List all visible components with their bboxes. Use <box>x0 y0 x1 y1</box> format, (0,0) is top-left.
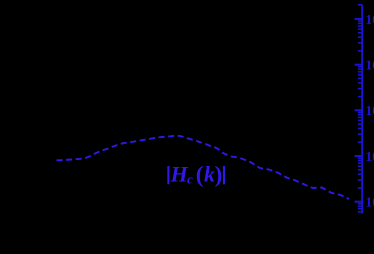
right y-axis line <box>361 5 363 214</box>
svg-text:10: 10 <box>365 58 374 73</box>
label |Hc(k)| : right bar <box>223 166 225 184</box>
svg-text:10: 10 <box>365 103 374 118</box>
major tick 10^1 <box>355 155 363 157</box>
minor ticks decade 10^2 <box>358 112 362 142</box>
minor ticks decade 10^3 <box>358 67 362 97</box>
label |Hc(k)| : left bar <box>167 166 169 184</box>
dashed frequency-response curve <box>57 136 350 199</box>
minor ticks decade 10^1 <box>358 158 362 188</box>
minor ticks decade 10^0 <box>358 204 362 212</box>
major tick 10^3 <box>355 64 363 66</box>
svg-text:k: k <box>204 161 215 186</box>
svg-text:10: 10 <box>365 149 374 164</box>
minor ticks decade 10^4 <box>358 21 362 51</box>
svg-text:10: 10 <box>365 195 374 210</box>
svg-text:c: c <box>187 171 193 186</box>
major tick 10^4 <box>355 18 363 20</box>
svg-text:(: ( <box>196 162 204 187</box>
svg-text:H: H <box>170 161 189 186</box>
major tick 10^0 <box>355 201 363 203</box>
svg-text:): ) <box>215 162 223 187</box>
major tick 10^2 <box>355 109 363 111</box>
top minor tick 2e4 <box>358 4 362 6</box>
svg-text:10: 10 <box>365 12 374 27</box>
